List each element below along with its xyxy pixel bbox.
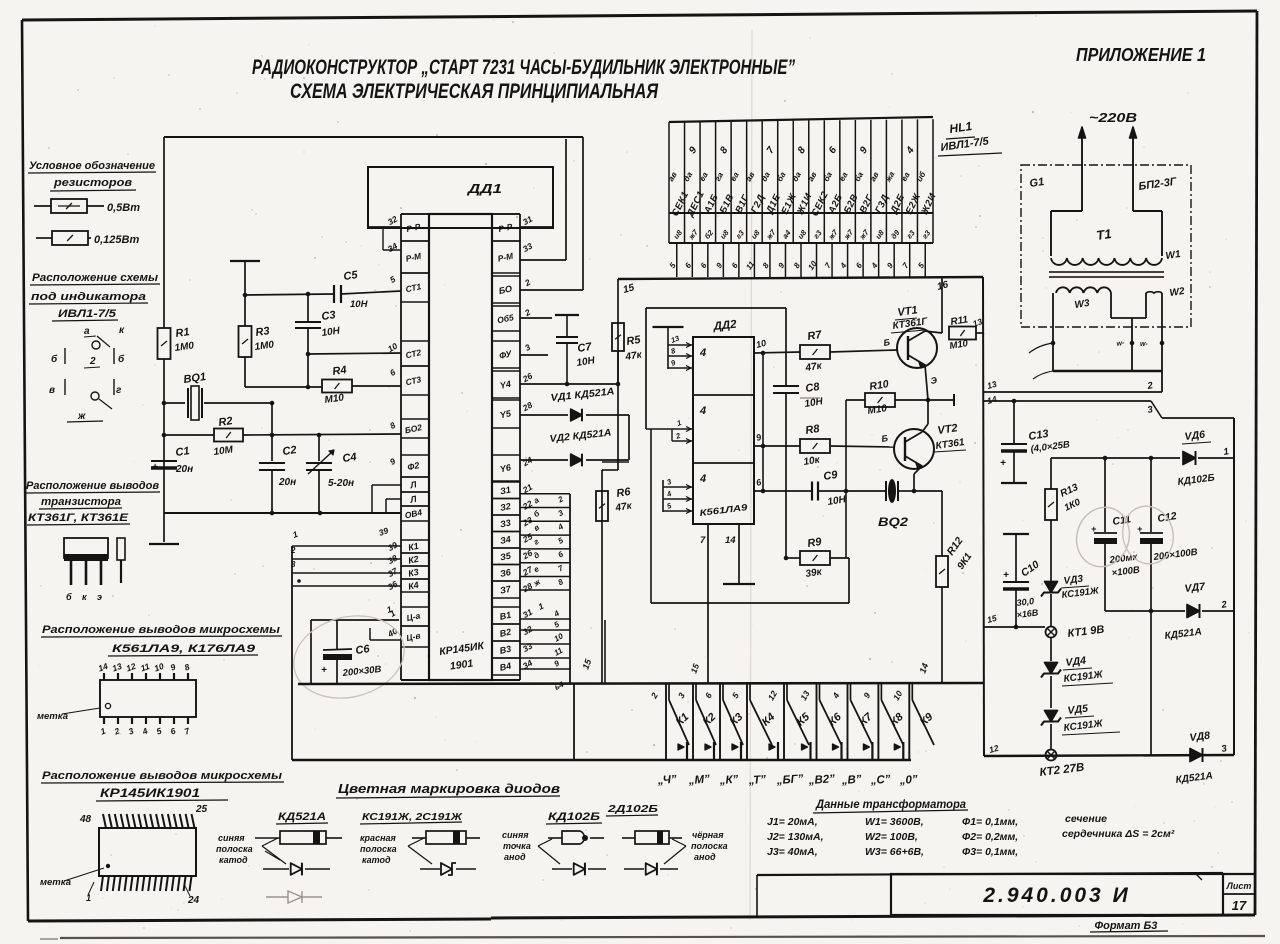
svg-text:метка: метка xyxy=(40,877,71,888)
svg-text:W1: W1 xyxy=(1165,249,1182,262)
svg-text:7: 7 xyxy=(700,535,706,546)
svg-text:красная: красная xyxy=(360,833,397,843)
svg-text:W3= 66+6В,: W3= 66+6В, xyxy=(865,846,924,858)
svg-text:10Н: 10Н xyxy=(350,299,369,310)
svg-text:„С”: „С” xyxy=(869,774,891,787)
svg-text:„Т”: „Т” xyxy=(747,774,766,787)
svg-text:ВQ2: ВQ2 xyxy=(878,515,908,529)
svg-text:э: э xyxy=(97,592,102,602)
svg-text:к: к xyxy=(82,592,87,602)
svg-text:w͏-: w͏- xyxy=(1140,341,1148,348)
svg-text:б: б xyxy=(66,592,72,602)
svg-text:„0”: „0” xyxy=(898,774,918,787)
svg-text:R6: R6 xyxy=(616,486,633,500)
svg-text:КД521А: КД521А xyxy=(278,811,326,823)
svg-text:полоска: полоска xyxy=(360,844,397,854)
svg-text:г: г xyxy=(116,385,122,396)
svg-text:R2: R2 xyxy=(218,415,234,429)
svg-text:К4: К4 xyxy=(407,580,419,592)
svg-text:2: 2 xyxy=(89,356,96,367)
svg-text:4: 4 xyxy=(699,347,706,359)
svg-text:С3: С3 xyxy=(321,309,337,323)
svg-text:VД5: VД5 xyxy=(1067,703,1089,717)
svg-text:„Ч”: „Ч” xyxy=(656,774,677,787)
svg-text:R1: R1 xyxy=(175,326,191,340)
svg-text:Ф3= 0,1мм,: Ф3= 0,1мм, xyxy=(962,846,1018,858)
svg-text:сердечника ΔS = 2см²: сердечника ΔS = 2см² xyxy=(1062,828,1175,840)
svg-text:R9: R9 xyxy=(807,536,824,550)
svg-text:3: 3 xyxy=(291,560,296,569)
svg-text:ДД2: ДД2 xyxy=(712,319,738,334)
svg-text:ИВЛ1-7/5: ИВЛ1-7/5 xyxy=(58,308,117,320)
svg-text:С2: С2 xyxy=(282,444,298,458)
svg-text:С7: С7 xyxy=(577,341,594,355)
svg-text:„К”: „К” xyxy=(718,774,739,787)
svg-text:0,5Вт: 0,5Вт xyxy=(107,202,140,214)
svg-text:VД4: VД4 xyxy=(1065,655,1087,669)
svg-text:17: 17 xyxy=(1232,898,1247,913)
svg-text:G1: G1 xyxy=(1029,176,1045,190)
svg-text:ж: ж xyxy=(77,411,86,422)
svg-text:+: + xyxy=(1003,570,1009,581)
svg-text:анод: анод xyxy=(694,852,716,862)
svg-text:С9: С9 xyxy=(823,469,840,483)
svg-text:„БГ”: „БГ” xyxy=(775,773,804,787)
svg-text:К1: К1 xyxy=(407,541,419,553)
svg-text:R7: R7 xyxy=(807,329,824,343)
svg-text:~220В: ~220В xyxy=(1089,110,1137,125)
svg-text:25: 25 xyxy=(195,804,208,815)
svg-text:чёрная: чёрная xyxy=(692,830,724,840)
svg-text:Цветная маркировка диодов: Цветная маркировка диодов xyxy=(338,782,561,796)
svg-text:КТ361Г, КТ361Е: КТ361Г, КТ361Е xyxy=(28,512,129,524)
svg-text:20н: 20н xyxy=(175,464,193,475)
svg-text:W2= 100В,: W2= 100В, xyxy=(865,831,918,843)
svg-text:ПРИЛОЖЕНИЕ 1: ПРИЛОЖЕНИЕ 1 xyxy=(1076,45,1206,65)
svg-text:в: в xyxy=(49,385,55,396)
svg-text:„М”: „М” xyxy=(687,774,710,788)
svg-text:VД8: VД8 xyxy=(1189,730,1211,744)
svg-text:„В”: „В” xyxy=(840,774,862,787)
svg-text:J2= 130мА,: J2= 130мА, xyxy=(767,831,824,843)
svg-text:R5: R5 xyxy=(626,334,643,348)
svg-text:R4: R4 xyxy=(332,364,348,378)
svg-text:+: + xyxy=(152,462,158,473)
svg-text:2: 2 xyxy=(290,546,296,555)
svg-text:К561ЛА9, К176ЛА9: К561ЛА9, К176ЛА9 xyxy=(112,643,256,655)
svg-text:транзистора: транзистора xyxy=(41,496,121,508)
svg-text:Данные трансформатора: Данные трансформатора xyxy=(815,797,966,811)
svg-text:2Д102Б: 2Д102Б xyxy=(607,803,659,815)
svg-text:2.940.003 И: 2.940.003 И xyxy=(982,884,1130,907)
svg-text:б: б xyxy=(118,353,125,365)
svg-text:48: 48 xyxy=(79,814,92,825)
svg-text:точка: точка xyxy=(503,841,531,851)
svg-text:СХЕМА ЭЛЕКТРИЧЕСКАЯ ПРИНЦИПИ: СХЕМА ЭЛЕКТРИЧЕСКАЯ ПРИНЦИПИАЛЬНАЯ xyxy=(290,79,659,103)
svg-text:б: б xyxy=(51,353,58,365)
svg-text:24: 24 xyxy=(187,895,200,906)
svg-text:Расположение выводов: Расположение выводов xyxy=(26,480,159,492)
svg-text:Расположение выводов микросхе: Расположение выводов микросхемы xyxy=(42,624,281,636)
svg-text:Формат Б3: Формат Б3 xyxy=(1095,920,1158,932)
svg-text:под индикатора: под индикатора xyxy=(31,291,146,303)
svg-text:Расположение схемы: Расположение схемы xyxy=(32,272,159,284)
svg-text:а: а xyxy=(84,326,90,337)
svg-text:метка: метка xyxy=(37,711,68,722)
svg-text:РАДИОКОНСТРУКТОР „СТАРТ 7231: РАДИОКОНСТРУКТОР „СТАРТ 7231 ЧАСЫ-БУДИЛЬ… xyxy=(252,55,795,79)
svg-text:4: 4 xyxy=(699,405,706,417)
svg-text:„В2”: „В2” xyxy=(807,773,835,787)
svg-text:анод: анод xyxy=(504,852,526,862)
svg-text:С4: С4 xyxy=(342,451,358,465)
svg-text:Ф1= 0,1мм,: Ф1= 0,1мм, xyxy=(962,816,1018,828)
svg-text:J3= 40мА,: J3= 40мА, xyxy=(767,846,818,858)
svg-text:20н: 20н xyxy=(278,477,296,488)
svg-text:+: + xyxy=(1000,458,1006,469)
svg-text:J1= 20мА,: J1= 20мА, xyxy=(767,816,818,828)
svg-text:синяя: синяя xyxy=(502,830,529,840)
svg-text:катод: катод xyxy=(362,855,391,865)
svg-text:W1= 3600В,: W1= 3600В, xyxy=(865,816,924,828)
svg-text:С5: С5 xyxy=(343,269,359,283)
svg-text:сечение: сечение xyxy=(1065,813,1107,825)
svg-text:W3: W3 xyxy=(1074,298,1091,311)
svg-text:КД102Б: КД102Б xyxy=(548,811,600,823)
svg-text:+: + xyxy=(1091,524,1097,534)
svg-text:полоска: полоска xyxy=(691,841,728,851)
svg-text:С1: С1 xyxy=(175,445,191,459)
svg-text:резисторов: резисторов xyxy=(53,177,133,189)
svg-text:полоска: полоска xyxy=(216,844,253,854)
svg-text:катод: катод xyxy=(219,855,248,865)
svg-text:30,0: 30,0 xyxy=(1016,596,1035,608)
svg-text:R8: R8 xyxy=(805,423,822,437)
svg-text:Условное обозначение: Условное обозначение xyxy=(29,160,155,172)
svg-text:0,125Вт: 0,125Вт xyxy=(94,234,139,246)
svg-text:синяя: синяя xyxy=(218,833,245,843)
svg-text:W2: W2 xyxy=(1169,286,1186,299)
svg-text:R3: R3 xyxy=(255,325,271,339)
svg-text:ДД1: ДД1 xyxy=(467,181,502,196)
svg-text:4: 4 xyxy=(699,473,706,485)
svg-text:КС191Ж, 2С191Ж: КС191Ж, 2С191Ж xyxy=(362,811,463,823)
svg-text:Т1: Т1 xyxy=(1095,226,1112,243)
svg-text:+: + xyxy=(1137,524,1143,534)
svg-text:VД6: VД6 xyxy=(1184,429,1206,443)
svg-text:КР145ИК1901: КР145ИК1901 xyxy=(100,788,200,800)
svg-text:14: 14 xyxy=(725,535,736,546)
svg-text:+: + xyxy=(321,665,327,676)
svg-text:С6: С6 xyxy=(355,643,371,657)
svg-text:Расположение выводов микросхе: Расположение выводов микросхемы xyxy=(42,770,283,782)
svg-text:Ф2= 0,2мм,: Ф2= 0,2мм, xyxy=(962,831,1018,843)
svg-text:5-20н: 5-20н xyxy=(328,478,354,489)
svg-text:К3: К3 xyxy=(407,567,419,579)
svg-text:К2: К2 xyxy=(407,554,419,566)
svg-text:С8: С8 xyxy=(805,381,822,395)
svg-text:Лист: Лист xyxy=(1226,881,1252,891)
